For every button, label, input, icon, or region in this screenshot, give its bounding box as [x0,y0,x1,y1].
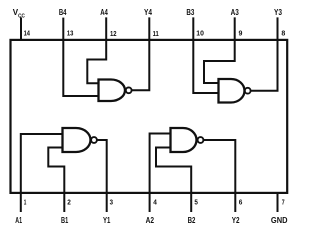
pin 14 Vcc stub [20,17,22,40]
NAND gate U1C output bubble [245,88,251,94]
svg-text:B4: B4 [59,8,67,17]
svg-text:A3: A3 [231,8,240,17]
svg-text:14: 14 [24,29,30,38]
svg-text:6: 6 [239,198,243,207]
svg-text:12: 12 [110,29,117,38]
NAND gate U1D body [99,80,125,102]
wire pin 12 A4 to gate U1D upper input [87,17,106,83]
wire pin 5 B2 to gate U1B lower input [156,148,191,213]
NAND gate U1C body [219,79,245,103]
NAND gate U1B body [171,128,197,152]
svg-text:A1: A1 [15,216,22,225]
svg-text:GND: GND [271,216,288,225]
svg-text:10: 10 [196,29,204,38]
wire pin 1 A1 to gate U1A upper input [21,134,63,212]
NAND gate U1A body [63,128,91,152]
svg-text:A2: A2 [146,216,155,225]
svg-text:B1: B1 [61,216,69,225]
wire gate U1C output to pin 8 Y3 [251,17,278,90]
wire pin 2 B1 to gate U1A lower input [48,148,64,213]
svg-text:9: 9 [239,29,243,38]
wire pin 13 B4 to gate U1D lower input [63,18,98,96]
wire pin 9 A3 to gate U1C upper input [204,17,235,83]
NAND gate U1D output bubble [126,87,132,93]
svg-text:Y3: Y3 [274,8,282,17]
svg-text:Y4: Y4 [144,8,152,17]
svg-text:A4: A4 [100,8,108,17]
svg-text:Y1: Y1 [103,216,111,225]
svg-text:1: 1 [24,198,27,207]
svg-text:5: 5 [194,198,198,207]
svg-text:3: 3 [110,198,113,207]
wire gate U1B output to pin 6 Y2 [204,140,235,212]
svg-text:11: 11 [153,29,159,38]
IC package outline [11,40,288,193]
wire gate U1D output to pin 11 Y4 [132,17,149,90]
wire pin 4 A2 to gate U1B upper input [150,134,171,213]
svg-text:B3: B3 [186,8,194,17]
svg-text:7: 7 [282,198,285,207]
svg-text:Y2: Y2 [232,216,240,225]
NAND gate U1A output bubble [91,137,97,143]
wire gate U1A output to pin 3 Y1 [97,140,107,212]
svg-text:B2: B2 [188,216,196,225]
svg-text:2: 2 [67,198,71,207]
wire pin 10 B3 to gate U1C lower input [193,17,218,93]
NAND gate U1B output bubble [198,137,204,143]
svg-text:8: 8 [281,29,285,38]
pin 7 GND stub [277,193,279,212]
svg-text:4: 4 [153,198,157,207]
svg-text:13: 13 [67,29,74,38]
